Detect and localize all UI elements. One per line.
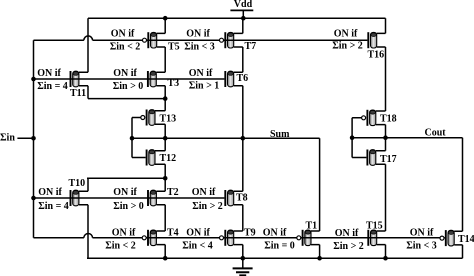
svg-text:Σin < 3: Σin < 3 — [184, 42, 215, 53]
svg-text:ON if: ON if — [192, 187, 216, 198]
svg-text:ON if: ON if — [186, 29, 210, 40]
svg-text:T11: T11 — [70, 88, 86, 99]
svg-text:Sum: Sum — [270, 129, 290, 140]
svg-text:Cout: Cout — [425, 128, 447, 139]
svg-text:T14: T14 — [458, 234, 474, 245]
svg-text:ON if: ON if — [263, 227, 287, 238]
svg-text:T17: T17 — [380, 154, 397, 165]
svg-text:ON if: ON if — [410, 227, 434, 238]
svg-text:T2: T2 — [167, 187, 179, 198]
svg-text:Σin > 2: Σin > 2 — [333, 241, 364, 252]
svg-text:Σin < 3: Σin < 3 — [406, 240, 437, 251]
svg-text:T8: T8 — [236, 193, 248, 204]
svg-text:T10: T10 — [69, 178, 86, 189]
svg-text:Σin > 0: Σin > 0 — [113, 201, 144, 212]
svg-text:Σin > 0: Σin > 0 — [113, 81, 144, 92]
svg-text:T15: T15 — [366, 221, 383, 232]
svg-text:ON if: ON if — [334, 29, 358, 40]
svg-text:Σin < 2: Σin < 2 — [110, 42, 141, 53]
svg-text:Σin < 2: Σin < 2 — [105, 240, 136, 251]
svg-text:T9: T9 — [244, 227, 256, 238]
svg-text:Σin > 2: Σin > 2 — [192, 201, 223, 212]
svg-text:Σin = 4: Σin = 4 — [37, 81, 68, 92]
svg-text:Σin = 0: Σin = 0 — [264, 240, 295, 251]
svg-text:T16: T16 — [368, 50, 385, 61]
svg-text:Σin > 1: Σin > 1 — [189, 81, 220, 92]
svg-text:T1: T1 — [306, 221, 318, 232]
svg-text:Σin < 4: Σin < 4 — [182, 240, 213, 251]
svg-text:ON if: ON if — [111, 29, 135, 40]
svg-text:ON if: ON if — [112, 227, 136, 238]
svg-text:T7: T7 — [245, 41, 257, 52]
svg-text:ON if: ON if — [186, 227, 210, 238]
svg-text:T6: T6 — [237, 73, 249, 84]
svg-text:T3: T3 — [168, 78, 180, 89]
svg-text:T13: T13 — [160, 113, 177, 124]
svg-text:ON if: ON if — [189, 68, 213, 79]
svg-text:ON if: ON if — [335, 228, 359, 239]
svg-text:ON if: ON if — [38, 187, 62, 198]
svg-text:Vdd: Vdd — [234, 0, 253, 10]
svg-text:T5: T5 — [168, 42, 180, 53]
svg-text:T4: T4 — [167, 227, 179, 238]
svg-text:T18: T18 — [380, 113, 397, 124]
svg-text:Σin > 2: Σin > 2 — [332, 41, 363, 52]
svg-text:ON if: ON if — [113, 68, 137, 79]
svg-text:T12: T12 — [160, 153, 177, 164]
svg-text:ON if: ON if — [37, 68, 61, 79]
svg-text:Σin: Σin — [0, 132, 15, 143]
svg-text:Σin = 4: Σin = 4 — [38, 201, 69, 212]
svg-text:ON if: ON if — [113, 187, 137, 198]
